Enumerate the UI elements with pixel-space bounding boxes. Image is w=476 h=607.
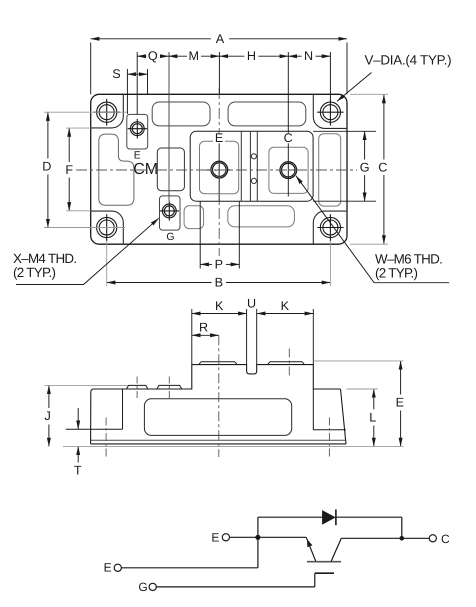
dim C right	[350, 94, 388, 244]
svg-text:B: B	[215, 276, 223, 290]
dim E side	[400, 361, 402, 447]
svg-text:P: P	[215, 257, 223, 271]
svg-text:H: H	[247, 49, 256, 63]
case step shape left	[99, 134, 134, 205]
terminal G	[149, 583, 156, 590]
bridge pin hole lower	[251, 178, 256, 183]
dim Q	[137, 52, 169, 201]
corner boss bottom-right	[313, 211, 347, 244]
bottom recess wide	[228, 206, 295, 227]
side body right edge	[341, 389, 347, 444]
corner boss bottom-left	[91, 211, 124, 244]
dim J	[48, 385, 50, 446]
svg-text:E: E	[134, 149, 141, 161]
bridge pin hole upper	[251, 154, 256, 159]
leader W-M6	[296, 176, 449, 283]
right terminal recess	[319, 134, 341, 206]
svg-text:A: A	[216, 32, 225, 46]
svg-text:K: K	[281, 299, 290, 313]
label recess front face	[144, 399, 291, 436]
svg-text:T: T	[74, 464, 82, 478]
side body bottom edge	[91, 443, 346, 445]
node B junction	[400, 536, 405, 541]
svg-text:(2 TYP.): (2 TYP.)	[13, 265, 56, 280]
wire riser node A to E lower	[257, 537, 259, 568]
svg-text:C: C	[441, 532, 450, 546]
dim L	[373, 389, 375, 446]
svg-text:C: C	[284, 131, 293, 145]
wire diode cathode branch	[337, 516, 402, 518]
terminal E lower	[114, 564, 121, 571]
svg-text:S: S	[112, 67, 120, 81]
mounting hole top-left	[94, 99, 120, 126]
deck tab E side	[199, 362, 238, 365]
dim R	[192, 334, 219, 336]
svg-text:E: E	[215, 131, 223, 145]
transistor Q1 collector lead	[331, 538, 341, 561]
central terminal block	[190, 131, 313, 201]
case recess right of CM	[157, 148, 184, 191]
centerline vertical module center	[218, 88, 220, 256]
flange step right	[313, 389, 346, 430]
dim M	[169, 52, 220, 94]
screw E crosshair horizontal	[206, 169, 232, 171]
transistor Q1 emitter arrow	[307, 539, 313, 547]
dim A	[91, 39, 347, 95]
centerline mounting hole left side	[105, 418, 107, 459]
node A junction	[255, 535, 260, 540]
baseplate seam	[91, 439, 346, 441]
svg-text:V–DIA.(4 TYP.): V–DIA.(4 TYP.)	[365, 53, 452, 68]
screw E aux (M4)	[128, 119, 147, 139]
wire node B to terminal C	[402, 537, 429, 539]
wire diode anode branch	[258, 516, 323, 518]
mounting hole top-right	[317, 99, 343, 126]
wire E upper to node A	[230, 536, 258, 538]
aux terminal pad E (M4)	[127, 114, 148, 149]
bridge divider left	[249, 131, 251, 201]
svg-text:E: E	[211, 530, 219, 544]
mounting hole bottom-right	[317, 214, 343, 241]
dim S	[127, 69, 147, 114]
wire E lower to riser	[122, 567, 258, 569]
svg-text:X–M4 THD.: X–M4 THD.	[13, 251, 76, 266]
boss tab G aux side	[157, 385, 182, 389]
aux terminal pad G (M4)	[160, 196, 181, 230]
corner boss top-left	[91, 94, 124, 128]
centerline module center side	[218, 335, 220, 457]
label C main terminal	[282, 131, 294, 145]
deck tab C side	[268, 362, 305, 365]
svg-text:C: C	[378, 160, 387, 174]
side body left edge	[91, 389, 93, 444]
svg-text:E: E	[104, 561, 112, 575]
dim B	[107, 282, 331, 284]
top terminal recess left	[152, 102, 210, 126]
svg-text:CM: CM	[133, 161, 158, 178]
wire cathode riser to node B	[401, 517, 403, 538]
svg-text:N: N	[304, 49, 313, 63]
centerline screw G aux side	[168, 377, 170, 401]
mounting hole bottom-left	[94, 214, 120, 241]
transistor Q1 emitter lead	[306, 537, 316, 561]
flange step left	[66, 389, 123, 429]
bay divider wall	[240, 131, 242, 201]
centerline screw C side	[288, 349, 290, 378]
bridge divider right	[256, 131, 258, 201]
dim H	[219, 52, 288, 197]
screw C (M6)	[280, 162, 297, 179]
side body top profile	[93, 365, 341, 389]
svg-text:G: G	[166, 231, 174, 243]
svg-text:U: U	[247, 296, 256, 310]
dim K left	[192, 309, 247, 365]
dim P	[200, 201, 239, 269]
svg-text:R: R	[199, 320, 208, 334]
C main terminal pad	[269, 147, 308, 193]
centerline horizontal through screws	[76, 169, 357, 171]
svg-text:G: G	[360, 160, 370, 174]
centerline screw E aux side	[136, 377, 138, 401]
svg-text:K: K	[215, 299, 224, 313]
centerline mounting hole right side	[328, 418, 330, 459]
boss tab E aux side	[126, 385, 147, 389]
wire collector to node B	[341, 537, 402, 539]
svg-text:G: G	[138, 580, 147, 594]
corner boss top-right	[313, 94, 347, 128]
transistor Q1 gate electrode	[315, 572, 334, 574]
wire gate to terminal G	[156, 586, 314, 588]
svg-text:D: D	[42, 159, 51, 173]
svg-text:(2 TYP.): (2 TYP.)	[375, 266, 418, 281]
E main terminal pad	[200, 141, 239, 194]
wire node A riser to diode branch	[257, 517, 259, 537]
dim K right	[257, 309, 314, 365]
leader V-DIA	[337, 73, 372, 102]
dim T	[77, 408, 79, 463]
screw G (M4)	[160, 201, 179, 220]
svg-text:L: L	[369, 410, 376, 424]
svg-text:F: F	[65, 163, 73, 177]
wire node A to IGBT emitter	[258, 536, 306, 538]
centerline solid through screw E	[218, 131, 220, 201]
dim G right	[313, 131, 376, 201]
transistor Q1 channel bar	[307, 561, 341, 563]
svg-text:J: J	[45, 409, 51, 423]
terminal C	[429, 535, 436, 542]
svg-text:M: M	[189, 49, 200, 63]
module outline top view	[91, 94, 347, 244]
svg-text:E: E	[396, 396, 404, 410]
screw E (M6)	[211, 161, 228, 178]
top terminal recess right	[228, 102, 306, 126]
wire gate riser	[314, 573, 316, 587]
dim F	[66, 128, 91, 211]
bottom recess small	[184, 206, 204, 229]
label E main terminal	[213, 131, 225, 145]
dim D	[47, 112, 49, 227]
svg-text:W–M6 THD.: W–M6 THD.	[375, 252, 442, 267]
diode D1	[322, 510, 336, 525]
screw C crosshair horizontal	[276, 169, 302, 171]
leader X-M4	[16, 218, 159, 284]
dim N	[288, 52, 330, 99]
svg-text:Q: Q	[148, 49, 158, 63]
terminal E upper	[222, 534, 229, 541]
